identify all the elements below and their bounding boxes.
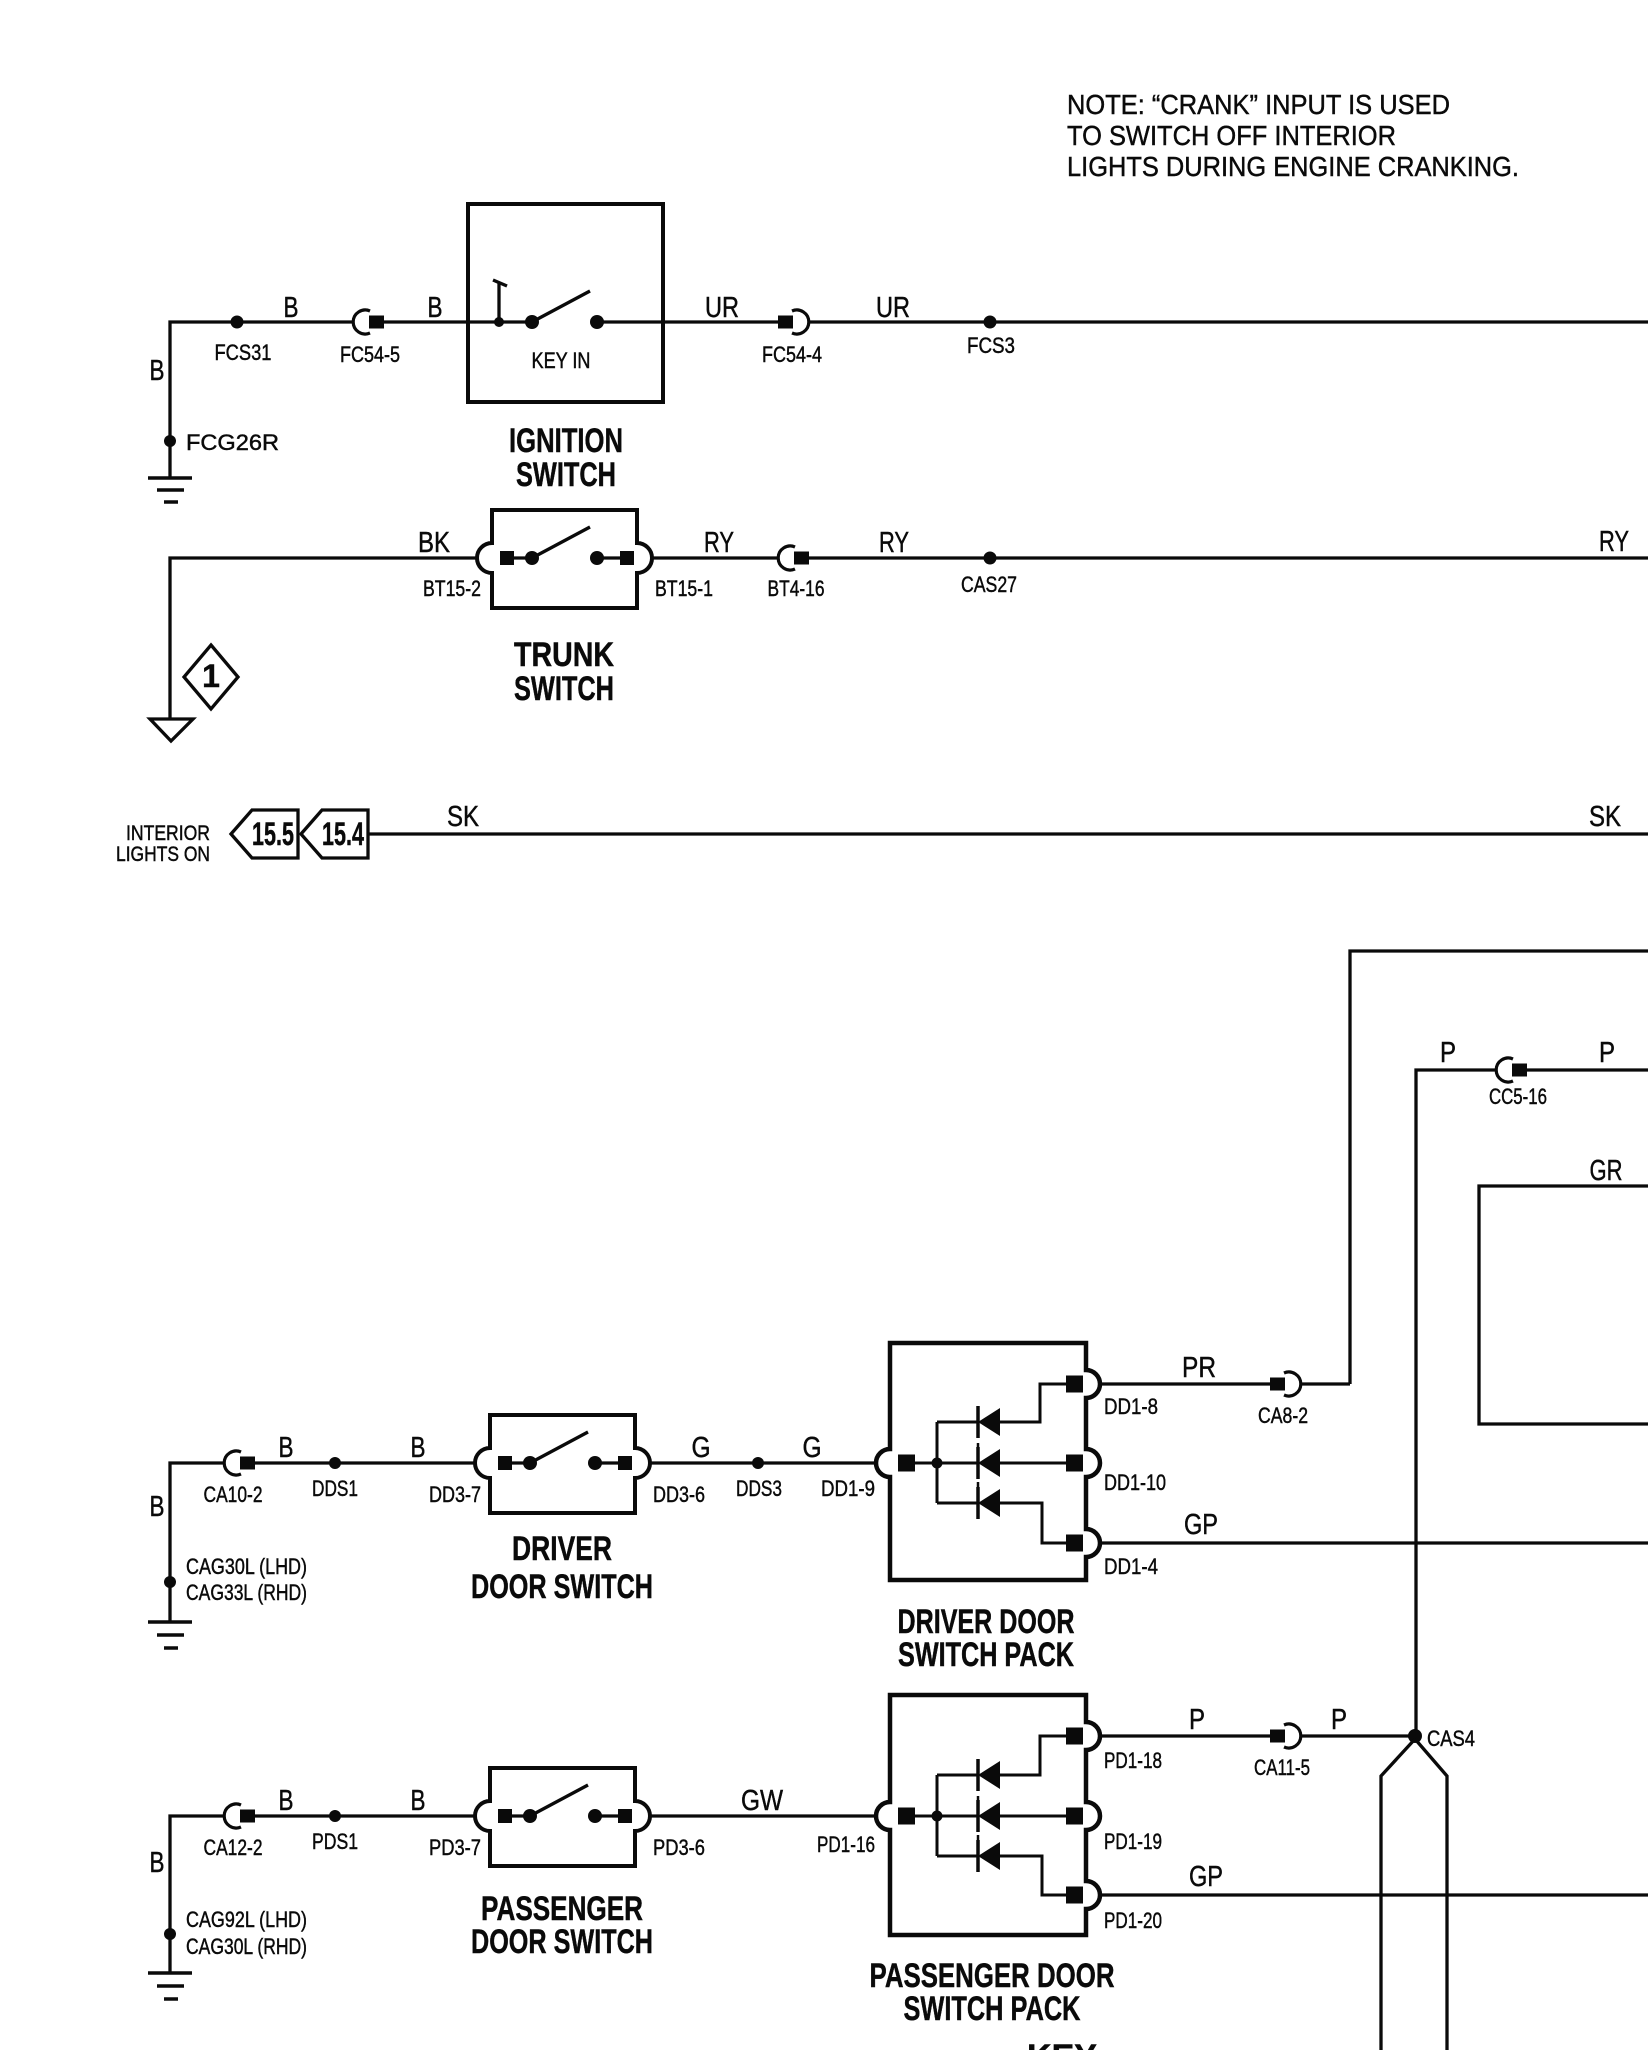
key-in actuator symbol	[493, 280, 507, 322]
wire B from ground rise through FCS31 to ignition switch	[170, 322, 532, 478]
svg-text:FCG26R: FCG26R	[186, 430, 279, 455]
svg-text:UR: UR	[705, 292, 739, 324]
svg-text:GP: GP	[1184, 1509, 1218, 1541]
driver pack pin squares	[898, 1376, 1083, 1552]
svg-text:BT15-1: BT15-1	[655, 576, 713, 601]
svg-text:BT4-16: BT4-16	[768, 576, 825, 601]
svg-text:DD1-8: DD1-8	[1104, 1394, 1158, 1419]
wire BK from reference triangle rise to trunk switch	[170, 558, 478, 719]
svg-text:CAG33L (RHD): CAG33L (RHD)	[186, 1580, 307, 1605]
wire G from driver door switch to driver pack	[650, 1461, 876, 1464]
passenger door switch terminals and blade	[498, 1785, 627, 1816]
svg-text:UR: UR	[876, 292, 910, 324]
svg-text:B: B	[428, 292, 443, 324]
node DDS1	[329, 1457, 341, 1469]
driver pack diode common cathode dashed line	[977, 1430, 980, 1497]
svg-text:DD3-6: DD3-6	[653, 1482, 705, 1507]
connector CA8-2	[1270, 1372, 1301, 1396]
svg-text:B: B	[279, 1785, 294, 1817]
diode D2 (driver pack middle)	[978, 1447, 1000, 1479]
trunk switch terminals and blade	[500, 527, 629, 558]
wire RY from trunk switch to right edge	[652, 556, 1648, 559]
svg-text:BK: BK	[418, 527, 451, 559]
svg-text:SWITCH: SWITCH	[514, 670, 614, 708]
wire PR from DD1-8 to riser	[1100, 1382, 1350, 1385]
diode D4 (passenger pack top)	[978, 1759, 1000, 1791]
svg-text:CA8-2: CA8-2	[1258, 1403, 1308, 1428]
svg-text:FCS31: FCS31	[215, 340, 272, 365]
node FCS3	[984, 316, 997, 329]
driver door switch pack box	[876, 1343, 1100, 1580]
svg-text:SK: SK	[1589, 801, 1622, 833]
svg-text:GP: GP	[1189, 1861, 1223, 1893]
node CAS4	[1408, 1729, 1422, 1743]
connector CA10-2	[224, 1451, 255, 1475]
svg-text:BT15-2: BT15-2	[423, 576, 481, 601]
label INTERIOR LIGHTS ON	[116, 822, 210, 866]
driver pack internal wires	[915, 1384, 1066, 1543]
wire GW from passenger door switch to passenger pack	[650, 1814, 876, 1817]
diode D3 (driver pack bottom)	[978, 1487, 1000, 1519]
svg-text:SWITCH PACK: SWITCH PACK	[904, 1990, 1081, 2028]
svg-text:DDS3: DDS3	[736, 1476, 782, 1501]
svg-text:DOOR SWITCH: DOOR SWITCH	[471, 1568, 653, 1606]
svg-text:DDS1: DDS1	[312, 1476, 358, 1501]
svg-text:IGNITION: IGNITION	[509, 422, 623, 460]
node FCS31	[231, 316, 244, 329]
svg-text:CA10-2: CA10-2	[204, 1482, 263, 1507]
svg-text:GR: GR	[1590, 1155, 1623, 1187]
svg-text:PD3-6: PD3-6	[653, 1835, 705, 1860]
note text	[1067, 89, 1519, 182]
svg-text:G: G	[803, 1432, 822, 1464]
svg-text:PD1-18: PD1-18	[1104, 1748, 1162, 1773]
svg-text:PR: PR	[1182, 1352, 1216, 1384]
ground CAG92L	[148, 1973, 192, 1999]
ground-reference triangle	[150, 719, 193, 741]
svg-text:RY: RY	[704, 527, 734, 559]
svg-text:DD3-7: DD3-7	[429, 1482, 481, 1507]
svg-text:B: B	[411, 1785, 426, 1817]
svg-text:PD3-7: PD3-7	[429, 1835, 481, 1860]
diode D1 (driver pack top)	[978, 1406, 1000, 1438]
svg-text:B: B	[150, 355, 165, 387]
svg-text:B: B	[284, 292, 299, 324]
node DDS3	[752, 1457, 764, 1469]
connector CA11-5	[1270, 1724, 1301, 1748]
node FCG26R	[164, 435, 176, 447]
connector FC54-4	[778, 310, 809, 334]
svg-text:KEY IN: KEY IN	[532, 348, 591, 373]
svg-text:TRUNK: TRUNK	[514, 636, 614, 674]
wire P with riser to CAS4	[1416, 1070, 1648, 1736]
svg-text:CA11-5: CA11-5	[1254, 1755, 1310, 1780]
svg-text:SWITCH PACK: SWITCH PACK	[898, 1636, 1074, 1674]
wire P from PD1-18 to CAS4	[1100, 1734, 1415, 1737]
off-page arrow 15.5	[231, 810, 298, 858]
svg-text:SWITCH: SWITCH	[516, 456, 616, 494]
wire B to passenger door switch	[170, 1816, 478, 1973]
svg-text:FC54-5: FC54-5	[340, 342, 400, 367]
svg-text:DD1-4: DD1-4	[1104, 1554, 1158, 1579]
svg-text:TO SWITCH OFF INTERIOR: TO SWITCH OFF INTERIOR	[1067, 120, 1396, 151]
svg-text:P: P	[1189, 1704, 1205, 1736]
svg-text:PDS1: PDS1	[312, 1829, 358, 1854]
wire UR from ignition switch to right edge	[597, 320, 1648, 323]
svg-text:FC54-4: FC54-4	[762, 342, 822, 367]
svg-text:15.5: 15.5	[252, 816, 294, 852]
key-in contact dot	[494, 317, 504, 327]
wire B to driver door switch	[170, 1463, 478, 1622]
svg-text:CA12-2: CA12-2	[204, 1835, 263, 1860]
passenger door switch box	[475, 1768, 650, 1866]
node CAS27	[984, 552, 997, 565]
node PDS1	[329, 1810, 341, 1822]
svg-text:PD1-19: PD1-19	[1104, 1829, 1162, 1854]
wire SK to right edge	[368, 832, 1648, 835]
svg-text:DRIVER: DRIVER	[512, 1530, 612, 1568]
diode D6 (passenger pack bottom)	[978, 1840, 1000, 1872]
svg-text:1: 1	[202, 658, 220, 694]
svg-text:CAG30L (LHD): CAG30L (LHD)	[186, 1554, 307, 1579]
svg-text:CC5-16: CC5-16	[1489, 1084, 1547, 1109]
passenger pack internal wires	[915, 1736, 1066, 1895]
svg-text:DD1-9: DD1-9	[821, 1476, 875, 1501]
diode D5 (passenger pack middle)	[978, 1800, 1000, 1832]
svg-text:P: P	[1440, 1037, 1456, 1069]
off-page arrow 15.4	[301, 810, 368, 858]
svg-text:B: B	[150, 1491, 165, 1523]
trunk switch box	[477, 510, 652, 608]
svg-text:RY: RY	[879, 527, 909, 559]
passenger door switch pack box	[876, 1695, 1100, 1935]
wire GP from DD1-4 to right edge	[1100, 1541, 1648, 1544]
svg-text:P: P	[1331, 1704, 1347, 1736]
passenger pack internal junction	[932, 1811, 943, 1822]
connector CC5-16	[1496, 1058, 1527, 1082]
wire CAS4 split right branch	[1415, 1739, 1447, 2050]
svg-text:CAS27: CAS27	[961, 572, 1017, 597]
svg-text:SK: SK	[447, 801, 480, 833]
svg-text:INTERIOR: INTERIOR	[126, 822, 210, 845]
node CAG92L/CAG30L	[164, 1928, 176, 1940]
connector CA12-2	[224, 1804, 255, 1828]
ground CAG30L	[148, 1622, 192, 1648]
wire CAS4 split left branch	[1381, 1739, 1415, 2050]
passenger pack diode common cathode dashed line	[977, 1783, 980, 1850]
node CAG30L/CAG33L	[164, 1576, 176, 1588]
svg-text:G: G	[692, 1432, 711, 1464]
svg-text:KEY: KEY	[1027, 2038, 1097, 2050]
driver door switch box	[475, 1415, 650, 1513]
svg-text:DOOR SWITCH: DOOR SWITCH	[471, 1923, 653, 1961]
svg-text:PD1-20: PD1-20	[1104, 1908, 1162, 1933]
passenger pack pin squares	[898, 1728, 1083, 1904]
ground FCG26R	[148, 478, 192, 502]
svg-text:B: B	[411, 1432, 426, 1464]
svg-text:LIGHTS DURING ENGINE CRANKING.: LIGHTS DURING ENGINE CRANKING.	[1067, 151, 1519, 182]
connector BT4-16	[778, 546, 809, 570]
wire GR loop	[1479, 1186, 1648, 1424]
driver door switch terminals and blade	[498, 1432, 627, 1463]
circuit reference diamond 1	[184, 645, 238, 709]
driver pack internal junction	[932, 1458, 943, 1469]
svg-text:CAG92L (LHD): CAG92L (LHD)	[186, 1907, 307, 1932]
ignition switch box	[468, 204, 663, 402]
svg-text:RY: RY	[1599, 526, 1629, 558]
svg-text:LIGHTS ON: LIGHTS ON	[116, 843, 210, 866]
svg-text:NOTE: “CRANK” INPUT IS USED: NOTE: “CRANK” INPUT IS USED	[1067, 89, 1450, 120]
svg-text:B: B	[279, 1432, 294, 1464]
svg-text:P: P	[1599, 1037, 1615, 1069]
connector FC54-5	[353, 310, 384, 334]
ignition switch poles and blade	[532, 291, 590, 322]
svg-text:CAG30L (RHD): CAG30L (RHD)	[186, 1934, 307, 1959]
svg-text:CAS4: CAS4	[1427, 1726, 1475, 1751]
svg-text:B: B	[150, 1847, 165, 1879]
svg-text:15.4: 15.4	[322, 816, 364, 852]
svg-text:DD1-10: DD1-10	[1104, 1470, 1166, 1495]
svg-text:PD1-16: PD1-16	[817, 1832, 875, 1857]
wire GP from PD1-20 to right edge	[1100, 1893, 1648, 1896]
svg-text:GW: GW	[741, 1785, 784, 1817]
svg-text:FCS3: FCS3	[967, 333, 1015, 358]
wire PR riser to right edge	[1350, 951, 1648, 1384]
